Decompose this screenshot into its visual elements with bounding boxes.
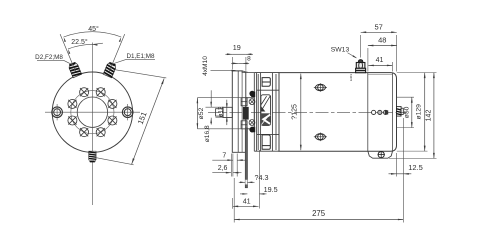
left mounting hole: [52, 107, 63, 118]
dim phi125: [300, 74, 302, 151]
dim phi16,8: [210, 90, 212, 107]
left view: horizontal centerline: [45, 111, 140, 113]
svg-text:ø129: ø129: [416, 104, 423, 120]
svg-text:19: 19: [233, 43, 241, 52]
terminal stud D2 (top left): [68, 61, 82, 77]
inspection mark upper: [315, 84, 326, 91]
svg-text:8: 8: [247, 56, 251, 63]
dim 41 top: [391, 62, 393, 72]
151 extension line bottom: [96, 158, 134, 165]
bearing upper: [241, 98, 247, 106]
end cap joint line: [367, 73, 369, 152]
dim phi52 extensions: [197, 97, 246, 99]
inner hub mark: [385, 110, 388, 114]
hex nut dark lower: [249, 127, 255, 133]
foot screw: [378, 152, 384, 158]
svg-text:41: 41: [243, 197, 251, 206]
dim 142: [433, 73, 435, 159]
shaft step small: [216, 109, 224, 116]
svg-text:?4.3: ?4.3: [255, 173, 269, 182]
dim 19: [231, 57, 233, 70]
SW13 nut stud on top: [356, 60, 366, 73]
flange outer circle: [52, 72, 132, 152]
block screw lower: [251, 127, 255, 132]
terminal strap with hole: [245, 128, 247, 188]
svg-text:2,6: 2,6: [218, 165, 228, 172]
dimension 151 diagonal: [132, 78, 165, 164]
bottom stud: [89, 151, 97, 162]
dim 2,6: [230, 154, 232, 177]
svg-text:22.5°: 22.5°: [71, 38, 88, 46]
angle leg right 22.5deg: [109, 34, 125, 71]
dim 57: [360, 35, 362, 58]
svg-text:142: 142: [426, 110, 433, 122]
22.5 degree dimension arc: [68, 44, 92, 49]
angle leg left 22.5deg: [60, 34, 76, 71]
svg-text:57: 57: [375, 23, 383, 32]
svg-text:ø16,8: ø16,8: [204, 125, 211, 142]
svg-text:E303: E303: [349, 74, 353, 81]
hex nut dark upper: [249, 91, 255, 97]
dim 142 extension bottom: [389, 157, 437, 159]
bottom foot with screw: [368, 151, 393, 158]
brush box lower: [262, 135, 270, 149]
shaft hub dark: [243, 107, 249, 120]
svg-text:41: 41: [376, 57, 384, 64]
dim phi12: [226, 109, 228, 116]
bearing lower: [241, 121, 247, 129]
right view horizontal centerline: [208, 111, 407, 113]
three terminal dots: [372, 110, 376, 114]
brush box upper: [262, 78, 270, 87]
stud nut lower: [249, 120, 255, 126]
terminal stud D1 (top right): [103, 61, 117, 77]
dim phi52: [196, 98, 198, 129]
spring upper: [261, 95, 271, 126]
svg-text:48: 48: [378, 36, 386, 45]
dim 8: [238, 62, 242, 64]
end cap rim line: [392, 73, 394, 152]
dim 48: [367, 48, 369, 72]
svg-text:45°: 45°: [88, 25, 99, 33]
8 threaded holes on bolt circle: [68, 88, 117, 137]
flange center bore circle: [77, 97, 107, 127]
inspection mark lower: [315, 134, 326, 141]
pilot boss: [246, 98, 255, 129]
svg-text:D1,E1;M8: D1,E1;M8: [127, 53, 155, 60]
spring lower: [261, 113, 270, 125]
45 degree dimension arc: [64, 32, 122, 37]
dim 12.5: [396, 153, 398, 177]
block screw upper: [251, 92, 255, 97]
dim phi4.3 on strap hole: [239, 181, 245, 183]
dim phi129: [424, 73, 426, 152]
bolt circle: [71, 91, 114, 134]
22.5 arc arrow tail: [92, 43, 103, 44]
end cap platform line: [368, 73, 393, 75]
dim phi129 extensions: [397, 72, 437, 74]
dim phi16,8 extensions: [206, 106, 225, 108]
stud nut upper: [249, 99, 255, 105]
svg-text:275: 275: [312, 209, 326, 218]
motor body outline: [279, 73, 397, 152]
dim 41 bottom: [232, 198, 234, 209]
dim phi50 extensions: [397, 96, 414, 98]
svg-text:19.5: 19.5: [264, 185, 278, 194]
dim 275: [233, 178, 235, 223]
svg-text:ø12: ø12: [217, 106, 224, 117]
svg-text:ø52: ø52: [198, 107, 205, 119]
left view: vertical centerline: [91, 43, 93, 206]
dim 7: [232, 154, 234, 177]
dim 19.5: [258, 150, 260, 209]
brush housing block: [254, 73, 279, 152]
dim phi50: [411, 97, 413, 127]
mounting flange plate: [232, 71, 246, 152]
151 extension line top: [116, 70, 167, 78]
svg-text:SW13: SW13: [331, 46, 350, 53]
svg-text:?125: ?125: [292, 104, 299, 120]
svg-text:ø50: ø50: [403, 106, 410, 118]
svg-text:D2,F2;M8: D2,F2;M8: [35, 54, 63, 61]
rear shaft stub: [397, 107, 402, 117]
svg-text:7: 7: [222, 152, 226, 159]
shaft step large: [223, 107, 232, 117]
svg-text:12.5: 12.5: [408, 163, 423, 172]
svg-text:4xM10: 4xM10: [202, 56, 209, 76]
